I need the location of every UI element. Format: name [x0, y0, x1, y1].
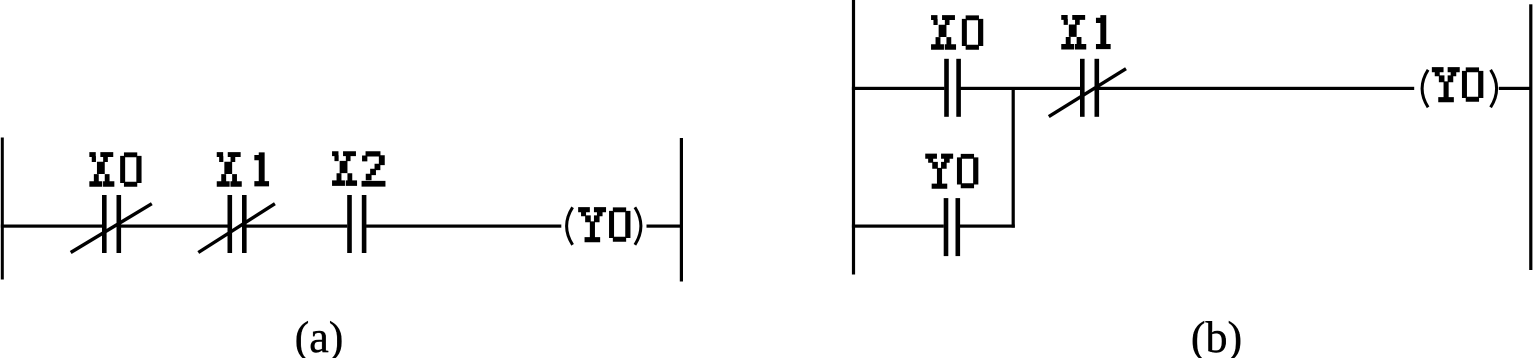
contact X0 (a) NC [71, 195, 152, 253]
wire (b) lower rung: rail to Y0 [852, 225, 944, 228]
contact X0 (b) NO [944, 59, 961, 117]
wire (b): Y0 to branch [960, 225, 1015, 228]
left power rail (b) [852, 0, 855, 275]
label X0 (b) [932, 16, 983, 50]
svg-text:(b): (b) [1191, 313, 1242, 358]
wire (b) top rung: rail to X0 [852, 87, 944, 90]
wire (a): X2 to coil [366, 225, 561, 228]
wire rung (a): rail to X0 [1, 225, 102, 228]
label X1 (b) [1062, 15, 1111, 49]
label X2 (a) [333, 152, 386, 187]
wire (a): coil to right rail [647, 225, 681, 228]
contact Y0 (b) NO [944, 198, 960, 256]
left power rail (a) [1, 138, 4, 280]
svg-text:(a): (a) [295, 313, 344, 358]
wire (b): X1 to coil [1099, 87, 1414, 90]
wire (b): coil to right rail [1499, 87, 1531, 90]
coil (Y0) (b) [1422, 68, 1497, 108]
wire (a): X0 to X1 [121, 225, 228, 228]
contact X1 (a) NC [198, 195, 275, 253]
coil (Y0) (a) [567, 207, 641, 245]
label X0 (a) [90, 153, 141, 187]
label Y0 (b) [926, 154, 978, 188]
wire (b): X0 to X1 (with branch junction) [961, 87, 1081, 90]
wire (a): X1 to X2 [246, 225, 347, 228]
label X1 (a) [217, 153, 268, 187]
branch vertical wire (b) [1012, 88, 1015, 227]
right power rail (a) [680, 138, 683, 282]
right power rail (b) [1529, 4, 1532, 270]
contact X1 (b) NC [1049, 59, 1126, 117]
contact X2 (a) NO [347, 195, 366, 253]
